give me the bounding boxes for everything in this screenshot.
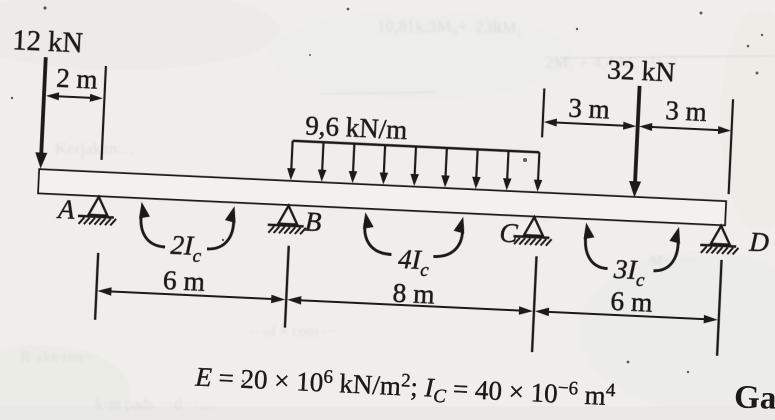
- svg-text:8 m: 8 m: [392, 277, 435, 310]
- svg-text:C: C: [499, 218, 519, 249]
- support C: ground line: [513, 236, 549, 238]
- support B: pin triangle: [278, 205, 298, 224]
- scan specks: [43, 6, 46, 9]
- support B: hatching: [268, 226, 306, 235]
- dimension 3 m right arrows: [644, 127, 727, 131]
- stiffness arc 4Ic: curved double-headed arrow: [364, 218, 393, 254]
- stiffness arc 3Ic: curved double-headed arrow: [584, 229, 609, 269]
- dimension 3 m left arrows: [548, 122, 632, 126]
- svg-text:D: D: [748, 227, 770, 258]
- support D: ground line: [700, 245, 736, 247]
- svg-text:Gam: Gam: [734, 380, 775, 418]
- support A: ground line: [78, 216, 114, 218]
- support D: hatching: [701, 246, 739, 255]
- svg-text:10,81k.3M₀+ 23k: 10,81k.3M₀+ 23k: [377, 17, 502, 36]
- span dimensions extension lines below supports: [95, 253, 98, 320]
- svg-text:2 m: 2 m: [56, 63, 99, 95]
- svg-text:3 m: 3 m: [665, 95, 708, 127]
- dimension 3 m: right extension line: [729, 99, 733, 194]
- material properties formula E, Ic: [194, 360, 617, 415]
- svg-text:R·aks·rna··: R·aks·rna··: [20, 349, 94, 366]
- svg-text:B: B: [304, 206, 322, 237]
- svg-text:3M₁: 3M₁: [490, 20, 522, 37]
- support A: hatching: [79, 217, 117, 226]
- paper shading: [0, 406, 775, 420]
- svg-text:6 m: 6 m: [610, 285, 653, 318]
- force P2 = 32 kN arrow: [635, 86, 640, 183]
- svg-text:3 m: 3 m: [568, 93, 611, 125]
- svg-text:6 m: 6 m: [162, 264, 205, 297]
- dimension 8 m (B-C): [291, 300, 529, 311]
- svg-text:A: A: [56, 194, 76, 225]
- svg-text:12 kN: 12 kN: [12, 25, 84, 59]
- svg-text:·· of × com ···: ·· of × com ···: [250, 324, 337, 340]
- force P1 = 12 kN arrow: [41, 57, 45, 153]
- distributed load q = 9,6 kN/m: top line: [293, 141, 540, 153]
- support C: pin triangle: [524, 217, 544, 236]
- beam ABCD (rotated scan frame): [39, 170, 725, 224]
- distributed load arrows: [291, 141, 292, 169]
- dimension 6 m (A-B): [101, 291, 281, 299]
- support A: pin triangle: [88, 196, 108, 215]
- svg-text:k·m pads ···d···…: k·m pads ···d···…: [95, 396, 214, 413]
- svg-text:Kerjakan…: Kerjakan…: [55, 139, 134, 158]
- support C: hatching: [514, 237, 552, 246]
- dimension 6 m (C-D): [539, 311, 714, 319]
- dimension 2 m: arrows: [50, 96, 98, 98]
- support D: pin triangle: [711, 225, 731, 244]
- svg-text:9,6 kN/m: 9,6 kN/m: [305, 110, 408, 145]
- dimension 3 m + 3 m: left extension line: [542, 88, 544, 137]
- stiffness arc 2Ic: curved double-headed arrow: [140, 208, 167, 247]
- dimension 2 m: extension line: [102, 66, 106, 160]
- svg-text:32 kN: 32 kN: [607, 53, 676, 87]
- support B: ground line: [268, 225, 304, 227]
